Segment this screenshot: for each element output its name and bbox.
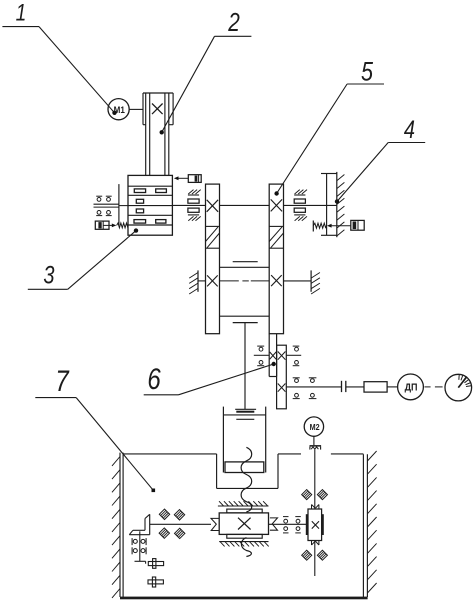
- svg-text:М2: М2: [310, 422, 321, 432]
- svg-text:1: 1: [16, 0, 27, 26]
- svg-text:4: 4: [404, 116, 415, 144]
- svg-text:7: 7: [55, 363, 69, 397]
- svg-text:ДП: ДП: [405, 382, 418, 394]
- svg-text:6: 6: [147, 361, 161, 395]
- svg-text:2: 2: [227, 8, 239, 37]
- svg-text:3: 3: [43, 261, 54, 289]
- svg-text:5: 5: [361, 57, 373, 87]
- svg-text:М1: М1: [114, 104, 125, 115]
